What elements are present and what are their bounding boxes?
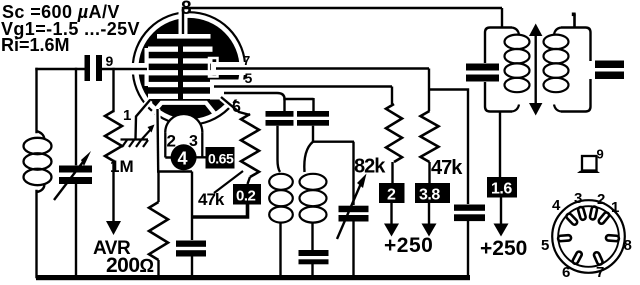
wire 82k to box2 [391, 162, 393, 183]
svg-text:8: 8 [181, 0, 192, 19]
svg-text:2: 2 [597, 191, 605, 208]
tube U1 grid bars row3 [148, 70, 178, 75]
wire C4 top stub [283, 98, 285, 111]
inductor L1 antenna coil [24, 131, 52, 192]
wire T to L3 [304, 142, 313, 172]
chassis ground at pin1 [121, 128, 153, 147]
wire cathode to bypass cap [191, 172, 193, 241]
wire 200ohm to bus [157, 260, 159, 277]
cathode pin dot 4 [171, 144, 197, 170]
svg-text:8: 8 [624, 237, 632, 254]
tube U1 pin9 channel [131, 63, 148, 75]
socket outer circle [552, 200, 625, 273]
arrow of trimmer C7 [337, 181, 362, 239]
svg-text:1: 1 [123, 107, 131, 124]
capacitor C1 input coupling [85, 55, 103, 81]
wire box 0.2 to cathode cap line [193, 205, 248, 218]
capacitor C7 trimmer [339, 206, 369, 222]
tube U1 grid bars row2 [148, 58, 178, 63]
tube U1 pin8 channel [179, 5, 188, 34]
wire pin1 lead [136, 100, 151, 139]
arrow +250 (left) [390, 203, 392, 224]
wire left tank bottom [35, 191, 37, 277]
wire grid input (pin9 node) [37, 68, 85, 70]
svg-text:6: 6 [562, 264, 570, 281]
wire cathode node [157, 170, 192, 172]
svg-text:+250: +250 [384, 234, 433, 257]
wire pin7 lead [216, 67, 429, 69]
tube U1 heater envelope [165, 114, 202, 151]
socket base diagram [541, 190, 632, 281]
tube U1 grid bars row1 [148, 47, 178, 52]
svg-text:5: 5 [541, 237, 549, 254]
tube U1 pin7/5 channel [211, 62, 248, 75]
svg-text:0.65: 0.65 [208, 151, 234, 167]
wire osc trimmer branch [352, 142, 354, 205]
inductor L3 IF secondary [300, 174, 327, 223]
svg-text:47k: 47k [431, 157, 463, 179]
tube U1 electrode disc [138, 18, 239, 119]
inductor L2 IF primary [269, 174, 293, 223]
tube U1 pin6 channel [222, 98, 238, 112]
arrow of variable capacitor C2 [54, 151, 91, 200]
wire pin6 lead [221, 97, 250, 115]
inductor L4 T2 primary loops [505, 28, 530, 112]
wire to 200ohm [157, 172, 159, 203]
wire tuning-cap branch top [75, 69, 77, 164]
svg-text:2: 2 [167, 132, 176, 151]
socket inner circle [558, 206, 619, 267]
double arrow coupling T2 [535, 33, 537, 105]
wire L3 bottom to C6 [311, 222, 313, 250]
socket pins [558, 206, 619, 265]
svg-text:7: 7 [243, 53, 250, 68]
transformer T2 output: left winding frame [485, 8, 512, 112]
tube U1 cathode channel [155, 109, 161, 122]
wire dot4 stubs [165, 156, 205, 159]
box 1.6 [487, 177, 517, 198]
box 3.8 [415, 183, 450, 203]
tube U1 grid bars row4 [148, 82, 178, 87]
svg-text:200Ω: 200Ω [106, 254, 154, 277]
svg-text:1: 1 [611, 199, 619, 216]
wire 1M top lead [112, 69, 114, 111]
capacitor C4 (left mid) [266, 111, 294, 126]
capacitor C3 cathode bypass [176, 241, 206, 257]
wire decoupling branch [429, 90, 468, 205]
svg-text:6: 6 [232, 99, 241, 116]
svg-text:3.8: 3.8 [419, 187, 440, 204]
ground bus [36, 275, 470, 280]
svg-text:9: 9 [106, 53, 114, 69]
wire cathode lead down [156, 109, 159, 171]
capacitor C10 in T2 right branch [595, 61, 624, 80]
svg-text:Ri=1.6M: Ri=1.6M [1, 35, 70, 55]
wire 1M bottom to AVR arrow [112, 161, 114, 222]
wire tuning-cap branch bottom [75, 185, 77, 277]
wire C4 bottom to L2 [278, 126, 281, 172]
pointer line 47k [214, 171, 243, 193]
capacitor C9 in T2 left branch [466, 64, 499, 82]
terminal 1 tick on T2 [573, 14, 576, 28]
arrow +250 (far right) [500, 198, 502, 225]
box 0.65 [206, 147, 235, 169]
arrow AVR (AGC line) [106, 221, 121, 235]
wire L2 bottom to bus [279, 222, 281, 277]
wire pin8 plate lead [183, 8, 502, 34]
wire 82k top [391, 87, 393, 105]
svg-text:82k: 82k [354, 156, 386, 178]
wire C8 to bus [467, 221, 469, 278]
svg-text:1M: 1M [110, 157, 134, 176]
tube U1 envelope outer ring [133, 12, 246, 125]
svg-text:4: 4 [178, 149, 188, 169]
wire T2 bottom to box 1.6 [499, 112, 501, 178]
transformer T2 right winding frame [561, 28, 591, 112]
svg-text:+250: +250 [480, 237, 527, 260]
svg-text:2: 2 [387, 187, 396, 204]
capacitor C6 under L3 [299, 250, 329, 264]
resistor R1 1M grid leak [105, 111, 122, 161]
svg-text:0.2: 0.2 [236, 188, 256, 205]
svg-text:9: 9 [597, 147, 604, 162]
resistor R5 47k plate [421, 111, 439, 162]
wire C5 bottom to T junction [313, 126, 354, 142]
tube U1 cathode trapezoid [152, 103, 215, 114]
tube U1 right bracket [209, 58, 218, 77]
svg-text:1.6: 1.6 [491, 181, 512, 198]
capacitor C2 tuning (variable) [59, 166, 92, 185]
capacitor C5 (right mid) [297, 111, 329, 126]
box 0.2 [233, 184, 261, 205]
wire 47k to box 3.8 [428, 162, 430, 183]
wire C5 top stub [312, 98, 314, 111]
wire C6 to bus [311, 264, 313, 277]
svg-text:7: 7 [596, 264, 604, 281]
wire trimmer to bus [352, 222, 354, 278]
svg-text:4: 4 [552, 197, 561, 214]
wire screen lead to caps [224, 93, 314, 99]
resistor R4 82k [386, 104, 402, 162]
tube U1 pin1 channel [138, 100, 151, 116]
capacitor C8 decoupling [454, 205, 485, 222]
svg-text:47k: 47k [198, 190, 225, 209]
tube U1 anode top bar [157, 34, 211, 39]
box 2 [379, 183, 405, 203]
grid-cap symbol 9 [582, 156, 597, 171]
wire pin7 vertical [428, 69, 430, 112]
wire pin5 lead [214, 85, 392, 87]
wire left tank top [35, 69, 37, 132]
svg-text:3: 3 [574, 190, 582, 207]
inductor L5 T2 secondary loops [544, 28, 569, 112]
resistor R2 200ohm cathode [149, 202, 168, 260]
arrow +250 (right of pair) [428, 203, 430, 224]
svg-text:5: 5 [245, 70, 253, 86]
wire bypass cap to bus [191, 257, 193, 278]
tube U1 grid bars row5 [148, 94, 178, 99]
resistor R3 47k (pin6) [241, 114, 259, 177]
wire R3 to box 0.2 [248, 177, 251, 184]
tube U1 left grid rail [145, 48, 149, 86]
